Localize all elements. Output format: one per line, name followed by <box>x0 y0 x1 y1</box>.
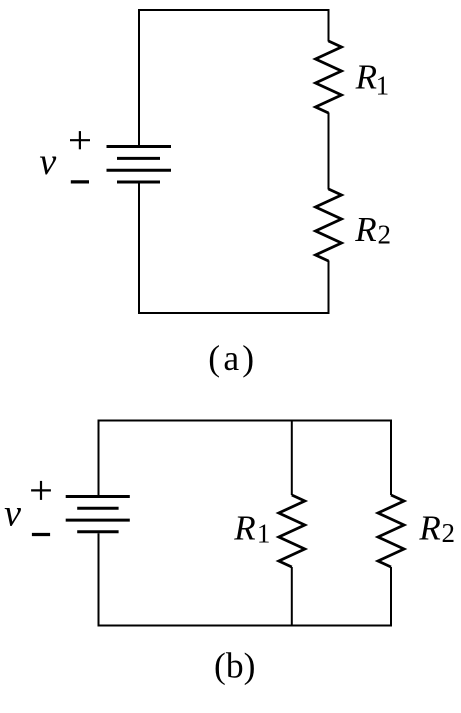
svg-text:2: 2 <box>378 219 392 249</box>
svg-text:(b): (b) <box>214 646 255 686</box>
svg-text:1: 1 <box>376 70 390 100</box>
svg-text:R: R <box>354 210 376 249</box>
svg-text:R: R <box>233 508 255 547</box>
svg-text:2: 2 <box>442 518 456 548</box>
svg-text:R: R <box>355 57 377 96</box>
svg-text:(a): (a) <box>208 338 257 378</box>
svg-text:v: v <box>39 141 56 183</box>
svg-text:1: 1 <box>257 518 271 548</box>
svg-text:R: R <box>418 508 440 547</box>
svg-text:v: v <box>4 492 21 534</box>
